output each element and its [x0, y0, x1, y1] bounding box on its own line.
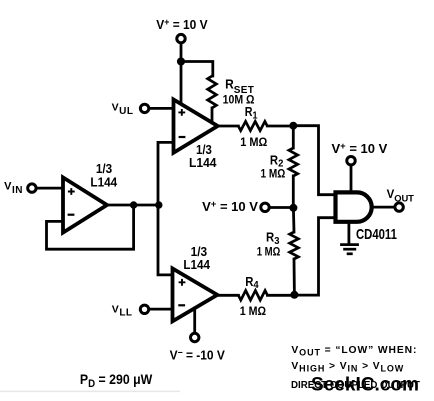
svg-text:CD4011: CD4011 — [356, 226, 397, 243]
wire U1 output to R1 — [218, 125, 239, 128]
resistor R1 1M — [238, 121, 267, 130]
junction node B (V+/R2/R3) — [289, 204, 297, 212]
resistor R2 1M — [289, 148, 298, 176]
junction node A (R1/R2) — [289, 122, 297, 130]
wire U2 output to mid node — [107, 204, 159, 207]
junction V+ top node — [177, 57, 185, 65]
ground — [340, 245, 359, 254]
wire node A to gate top input — [293, 126, 334, 195]
label V- = -10 V — [170, 347, 226, 363]
terminal V- bottom — [191, 333, 199, 341]
wire node A to R2 top — [292, 126, 295, 148]
terminal VIN — [28, 184, 36, 192]
resistor RSET 10M — [208, 76, 217, 108]
wire VLL terminal to U3 - input — [149, 308, 173, 311]
svg-text:VOUT = “LOW” WHEN:: VOUT = “LOW” WHEN: — [291, 345, 417, 358]
wire U1 - input to mid node — [158, 142, 174, 205]
svg-text:V+ = 10 V: V+ = 10 V — [202, 199, 258, 214]
op-amp U2 1/3 L144 — [63, 177, 107, 232]
wire V+ mid terminal to node B — [269, 206, 293, 209]
wire VIN terminal to U2 + input — [37, 187, 63, 190]
terminal V+ top — [177, 34, 185, 42]
svg-text:L144: L144 — [90, 175, 117, 190]
nand gate U4 CD4011 — [336, 192, 372, 221]
svg-text:V+ = 10 V: V+ = 10 V — [156, 16, 208, 32]
label R3 — [266, 230, 280, 247]
terminal V+ gate — [347, 157, 355, 165]
label R4 — [245, 274, 259, 291]
note line 1: VOUT = LOW WHEN: — [291, 345, 417, 358]
label PD = 290 uW — [80, 371, 153, 390]
wire R3 bottom to node C — [293, 259, 296, 295]
svg-text:L144: L144 — [183, 257, 210, 272]
wire node B to R3 top — [292, 208, 295, 232]
wire node C to gate bottom input stub — [294, 218, 334, 295]
wire gate to ground — [347, 222, 350, 244]
scan artifact gray streak — [0, 391, 180, 393]
wire V+ top terminal to U1 V+ pin — [180, 43, 183, 103]
wire V+ junction to RSET top — [181, 62, 213, 77]
label V+ = 10 V top — [156, 16, 208, 32]
wire gate output to VOUT terminal — [372, 206, 395, 209]
svg-text:1 MΩ: 1 MΩ — [240, 304, 267, 318]
wire U3 V- pin to terminal — [193, 308, 196, 333]
terminal V+ mid — [261, 203, 269, 211]
op-amp U1 1/3 L144 — [174, 100, 218, 153]
wire R2 bottom to node B — [292, 176, 295, 208]
wire R4 to node C — [268, 294, 295, 297]
svg-text:V+ = 10 V: V+ = 10 V — [332, 141, 388, 156]
resistor R4 1M — [238, 291, 267, 301]
terminal VUL — [140, 104, 148, 112]
wire R1 to node A — [267, 125, 293, 128]
wire RSET bottom to U1 top edge — [211, 108, 214, 123]
junction mid node — [155, 201, 162, 208]
svg-text:1 MΩ: 1 MΩ — [257, 245, 281, 259]
wire U2 feedback loop — [47, 205, 134, 249]
svg-text:10M Ω: 10M Ω — [223, 93, 255, 107]
note line 2: VHIGH > VIN > VLOW — [291, 361, 404, 374]
label RSET — [225, 77, 255, 96]
junction U2 output feedback node — [130, 201, 137, 208]
label V+ = 10 V gate — [332, 141, 388, 156]
svg-text:1 MΩ: 1 MΩ — [240, 135, 267, 149]
wire U3 output to R4 — [217, 294, 238, 297]
svg-text:L144: L144 — [189, 155, 217, 170]
wire VUL terminal to U1 + input — [149, 107, 174, 110]
label R1 — [245, 105, 258, 121]
svg-text:VHIGH > VIN > VLOW: VHIGH > VIN > VLOW — [291, 361, 404, 374]
label V+ = 10 V mid — [202, 199, 258, 214]
op-amp U3 1/3 L144 — [173, 269, 218, 322]
wire V+ gate terminal down to gate — [350, 165, 353, 192]
label R2 — [270, 153, 284, 170]
terminal VLL — [140, 305, 148, 313]
svg-text:SeekIC.com: SeekIC.com — [311, 375, 419, 396]
svg-text:1 MΩ: 1 MΩ — [261, 166, 286, 180]
junction node C (R3/R4) — [290, 291, 298, 299]
resistor R3 1M — [290, 232, 299, 259]
terminal VOUT — [395, 203, 403, 211]
wire mid node down to U3 + input — [158, 205, 173, 275]
